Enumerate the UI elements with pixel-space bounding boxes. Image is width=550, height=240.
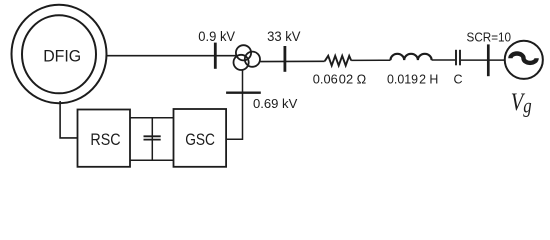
grid source Vg circle	[505, 41, 543, 79]
transformer T1 winding 1	[236, 45, 251, 60]
svg-text:RSC: RSC	[90, 130, 120, 149]
svg-text:33 kV: 33 kV	[267, 29, 301, 44]
DC link capacitor plate 1	[144, 135, 161, 137]
DC link bottom wire	[130, 159, 174, 161]
svg-text:C: C	[453, 72, 462, 86]
svg-text:0.9 kV: 0.9 kV	[198, 29, 236, 44]
capacitor C plate 2	[459, 50, 461, 66]
bus 33 kV	[283, 46, 286, 72]
bus SCR	[487, 44, 490, 76]
wire stator to transformer	[106, 55, 236, 57]
DC link capacitor wire	[151, 118, 153, 160]
grid source sine wave	[510, 53, 536, 62]
svg-text:DFIG: DFIG	[43, 48, 81, 66]
svg-text:SCR=10: SCR=10	[467, 29, 512, 44]
capacitor C plate 1	[455, 50, 457, 66]
bus 0.9 kV	[214, 43, 217, 69]
converter GSC box	[174, 109, 227, 167]
transformer T1 winding 3	[234, 55, 249, 70]
svg-text:Vg: Vg	[511, 87, 532, 119]
bus 0.69 kV	[226, 91, 261, 93]
svg-text:0.019 2 H: 0.019 2 H	[387, 71, 438, 86]
wire inductor to capacitor	[432, 59, 455, 61]
svg-text:0.06 02 Ω: 0.06 02 Ω	[313, 71, 367, 86]
DC link top wire	[130, 117, 174, 119]
wire resistor to inductor	[351, 59, 390, 61]
svg-text:0.69 kV: 0.69 kV	[253, 96, 298, 111]
transformer T1 winding 2	[245, 52, 260, 67]
resistor R1	[325, 56, 352, 66]
converter RSC box	[78, 110, 131, 167]
wire GSC to 0.69 kV bus	[226, 70, 242, 139]
rotor wire DFIG down	[60, 101, 77, 138]
inductor L1	[391, 54, 432, 60]
DFIG generator G1	[12, 5, 107, 103]
wire transformer to resistor	[261, 60, 325, 62]
DC link capacitor plate 2	[144, 139, 161, 141]
svg-text:GSC: GSC	[185, 130, 215, 149]
wire capacitor to grid source	[461, 59, 505, 61]
